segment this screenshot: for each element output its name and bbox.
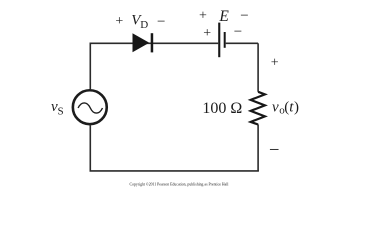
svg-text:+: + [203,26,211,41]
svg-text:100 Ω: 100 Ω [202,100,242,117]
svg-text:+: + [271,56,279,71]
svg-text:−: − [157,14,165,30]
svg-text:+: + [199,9,207,24]
svg-text:S: S [58,106,64,118]
svg-text:D: D [140,19,148,31]
svg-text:−: − [234,24,242,40]
svg-text:+: + [115,14,123,29]
svg-text:): ) [294,99,299,115]
svg-text:−: − [269,141,279,161]
svg-text:E: E [218,8,229,25]
svg-text:v: v [272,99,279,115]
svg-text:−: − [240,8,248,24]
svg-text:Copyright ©2011 Pearson Educat: Copyright ©2011 Pearson Education, publi… [130,182,229,188]
